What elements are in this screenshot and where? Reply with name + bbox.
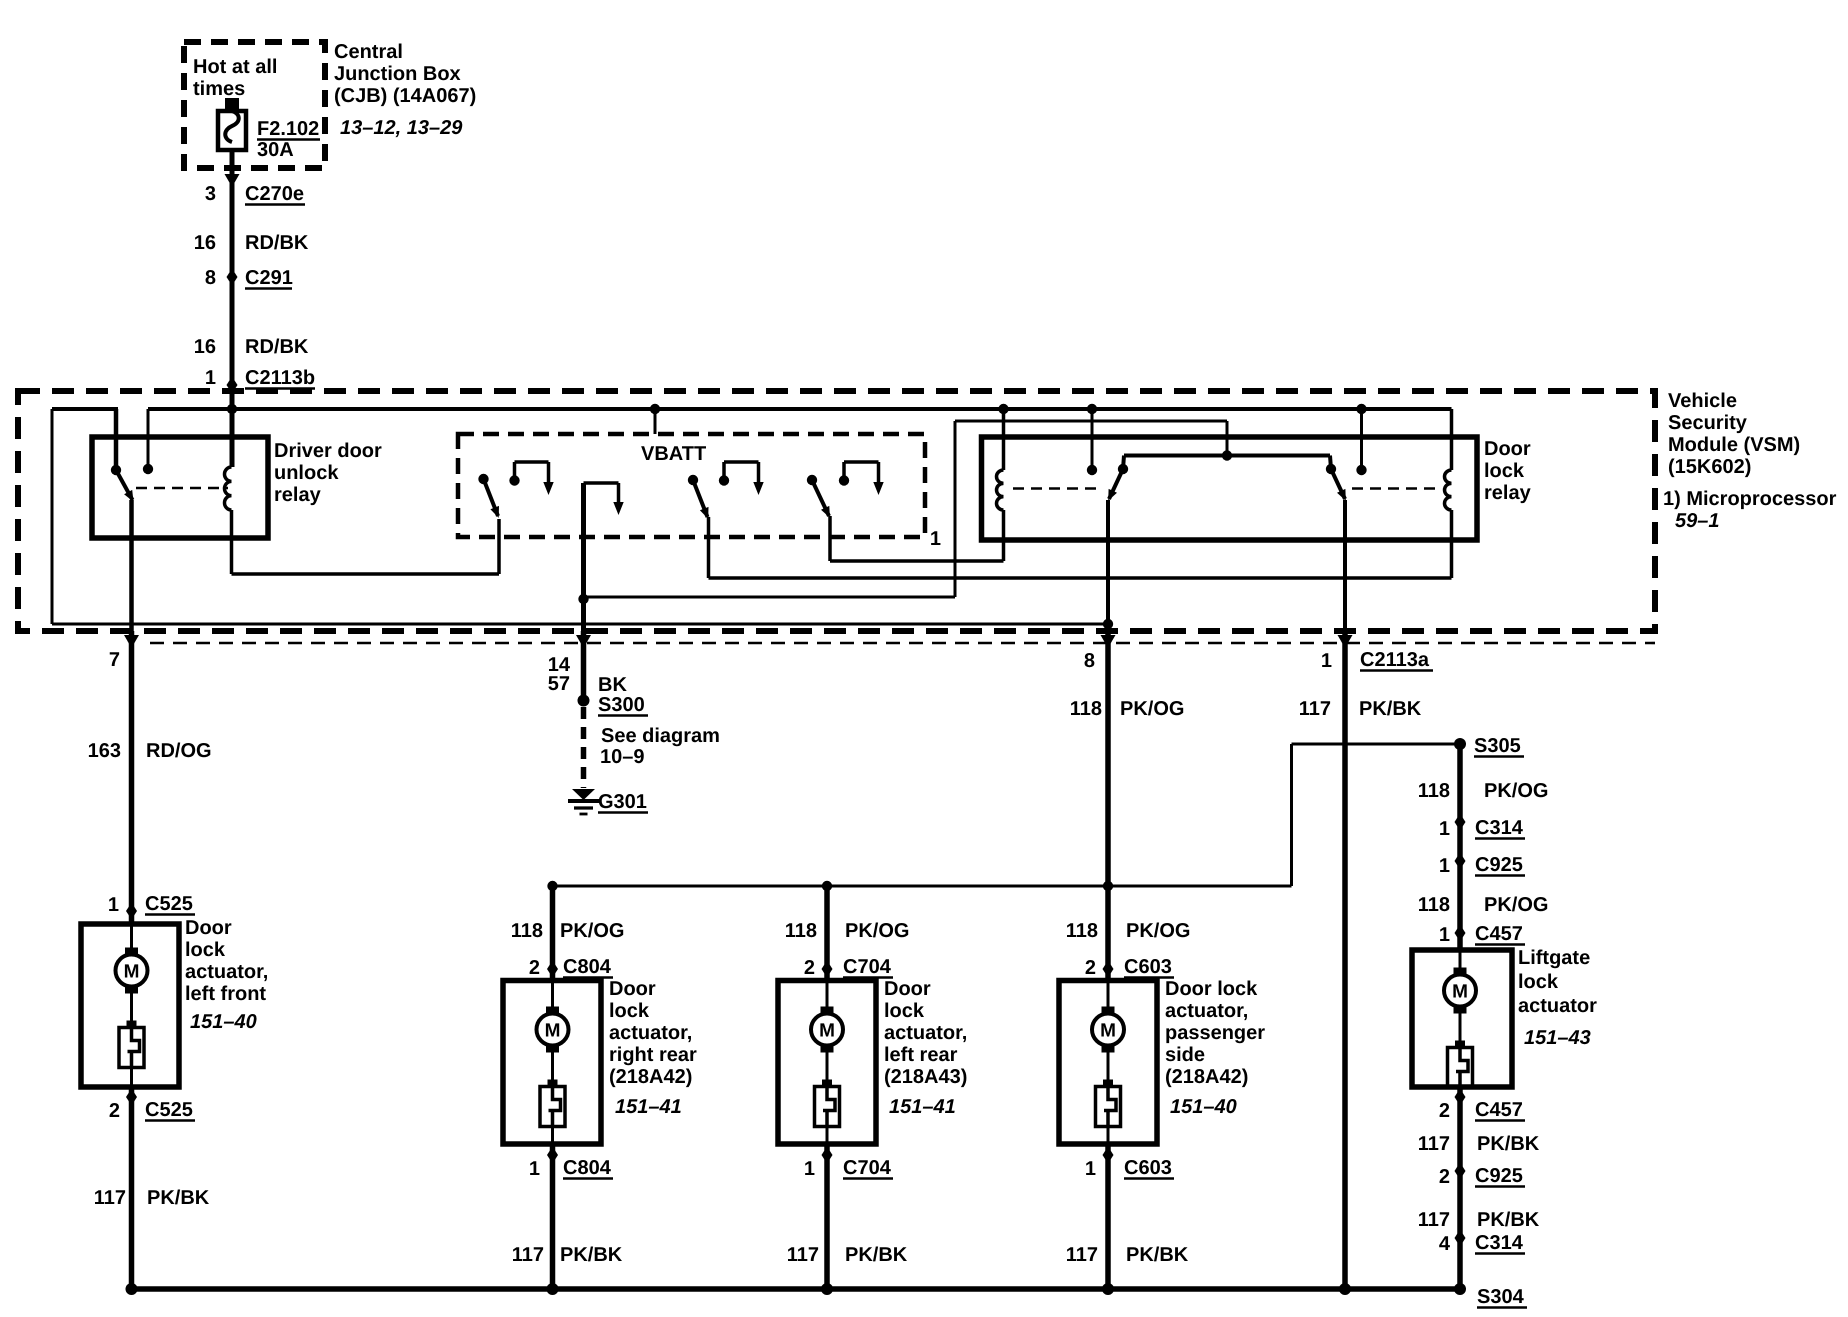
svg-text:Hot at all: Hot at all bbox=[193, 56, 277, 78]
connector C603 pin 1 bbox=[1103, 1147, 1114, 1164]
svg-text:7: 7 bbox=[109, 649, 120, 671]
svg-text:RD/OG: RD/OG bbox=[146, 740, 212, 762]
svg-text:2: 2 bbox=[1439, 1166, 1450, 1188]
svg-text:2: 2 bbox=[1085, 957, 1096, 979]
svg-text:C314: C314 bbox=[1475, 1232, 1524, 1254]
VBATT tap 1 staple with arrow bbox=[513, 462, 517, 481]
svg-text:Door: Door bbox=[1484, 438, 1531, 460]
svg-text:C603: C603 bbox=[1124, 1157, 1172, 1179]
node bus passenger bbox=[1102, 1283, 1114, 1295]
node feed left rear actuator bbox=[822, 881, 832, 891]
svg-text:1: 1 bbox=[1439, 818, 1450, 840]
svg-text:M: M bbox=[124, 962, 140, 983]
svg-text:(218A42): (218A42) bbox=[609, 1066, 692, 1088]
wire 16 RD/BK circuit C291 to C2113b bbox=[230, 277, 235, 391]
svg-text:C603: C603 bbox=[1124, 956, 1172, 978]
svg-text:13–12, 13–29: 13–12, 13–29 bbox=[340, 117, 463, 139]
svg-text:1: 1 bbox=[1439, 855, 1450, 877]
svg-text:Liftgate: Liftgate bbox=[1518, 947, 1590, 969]
svg-text:PK/BK: PK/BK bbox=[147, 1187, 210, 1209]
svg-text:1: 1 bbox=[529, 1158, 540, 1180]
svg-text:VBATT: VBATT bbox=[641, 443, 706, 465]
svg-text:(218A42): (218A42) bbox=[1165, 1066, 1248, 1088]
wire 118 PK/OG to passenger side actuator bbox=[1105, 886, 1111, 981]
svg-text:lock: lock bbox=[185, 939, 226, 961]
door lock relay actuation dashed line right bbox=[1352, 487, 1442, 490]
svg-text:Junction Box: Junction Box bbox=[334, 63, 461, 85]
connector C603 pin 2 bbox=[1103, 961, 1114, 978]
svg-text:side: side bbox=[1165, 1044, 1205, 1066]
svg-text:S300: S300 bbox=[598, 694, 645, 716]
door lock actuator passenger side bbox=[1059, 981, 1157, 1145]
svg-text:16: 16 bbox=[194, 336, 216, 358]
svg-text:117: 117 bbox=[1066, 1244, 1098, 1266]
connector C804 pin 1 bbox=[547, 1147, 558, 1164]
svg-text:4: 4 bbox=[1439, 1233, 1451, 1255]
svg-text:C925: C925 bbox=[1475, 1165, 1523, 1187]
svg-text:C704: C704 bbox=[843, 1157, 892, 1179]
wire dashed to ground G301 bbox=[581, 707, 587, 788]
svg-text:Central: Central bbox=[334, 41, 403, 63]
microprocessor switch 3 pivot bbox=[807, 475, 817, 485]
svg-text:C2113b: C2113b bbox=[245, 367, 315, 389]
svg-text:151–41: 151–41 bbox=[615, 1096, 682, 1118]
VBATT tap 1 dot bbox=[509, 475, 519, 485]
svg-text:lock: lock bbox=[1484, 460, 1525, 482]
svg-text:right rear: right rear bbox=[609, 1044, 697, 1066]
svg-text:Driver door: Driver door bbox=[274, 440, 382, 462]
door lock relay contact dot left bbox=[1087, 465, 1097, 475]
liftgate lock actuator bbox=[1412, 950, 1512, 1087]
Central Junction Box dashed box (Hot at all times) bbox=[184, 42, 325, 168]
svg-text:actuator,: actuator, bbox=[884, 1022, 967, 1044]
door lock actuator left rear bbox=[778, 981, 876, 1145]
wire VBATT feed bus y409 main segment bbox=[148, 407, 1452, 411]
VBATT tap 3 staple with arrow bbox=[722, 462, 726, 481]
svg-text:PK/OG: PK/OG bbox=[1484, 780, 1548, 802]
svg-text:Door lock: Door lock bbox=[1165, 978, 1258, 1000]
Vehicle Security Module (VSM) dashed box bbox=[18, 391, 1655, 631]
wire stub bus to VBATT box bbox=[654, 409, 657, 434]
svg-text:151–40: 151–40 bbox=[190, 1011, 257, 1033]
VBATT tap 3 dot bbox=[719, 475, 729, 485]
wire distribution 118 PK/OG to rear actuators bbox=[553, 885, 1109, 888]
svg-text:C525: C525 bbox=[145, 1099, 193, 1121]
node distribution junction pin8 bbox=[1103, 881, 1113, 891]
svg-text:8: 8 bbox=[205, 267, 216, 289]
node lock relay contact stub 1 junction bbox=[1087, 404, 1097, 414]
unlock relay contact dot bbox=[143, 464, 153, 474]
wire stub to lock relay left contact bbox=[1091, 409, 1094, 470]
svg-text:117: 117 bbox=[787, 1244, 819, 1266]
node junction C2113b feed on bus bbox=[227, 404, 237, 414]
wire fuse output to connector C270e bbox=[230, 168, 235, 186]
wire 117 PK/BK pin 1 to ground bus bbox=[1342, 631, 1348, 1289]
svg-text:C457: C457 bbox=[1475, 923, 1523, 945]
wire 118 PK/OG S305 to C314 bbox=[1457, 744, 1463, 950]
node bus left rear bbox=[821, 1283, 833, 1295]
svg-text:passenger: passenger bbox=[1165, 1022, 1265, 1044]
svg-text:117: 117 bbox=[512, 1244, 544, 1266]
svg-text:C2113a: C2113a bbox=[1360, 649, 1430, 671]
svg-text:16: 16 bbox=[194, 232, 216, 254]
VBATT tap 4 staple with arrow bbox=[842, 462, 846, 481]
svg-text:118: 118 bbox=[1070, 698, 1102, 720]
svg-text:1: 1 bbox=[1439, 924, 1450, 946]
wire 117 PK/BK left rear actuator to ground bus bbox=[824, 1144, 830, 1289]
wire stub to lock relay right contact bbox=[1360, 409, 1363, 470]
svg-text:PK/OG: PK/OG bbox=[1120, 698, 1184, 720]
svg-text:118: 118 bbox=[1418, 780, 1450, 802]
connector C291 pin 8 bbox=[227, 269, 238, 286]
unlock relay switch pivot bbox=[111, 465, 121, 475]
svg-text:10–9: 10–9 bbox=[600, 746, 645, 768]
svg-text:2: 2 bbox=[529, 957, 540, 979]
svg-text:(218A43): (218A43) bbox=[884, 1066, 967, 1088]
door lock relay switch arm left bbox=[1109, 469, 1123, 499]
node bus left front bbox=[126, 1283, 138, 1295]
svg-text:117: 117 bbox=[1418, 1133, 1450, 1155]
svg-text:PK/BK: PK/BK bbox=[1126, 1244, 1189, 1266]
svg-text:actuator,: actuator, bbox=[185, 961, 268, 983]
svg-text:PK/OG: PK/OG bbox=[1126, 920, 1190, 942]
svg-text:M: M bbox=[1100, 1021, 1116, 1042]
unlock relay coil bbox=[225, 467, 232, 510]
svg-text:PK/OG: PK/OG bbox=[845, 920, 909, 942]
svg-text:118: 118 bbox=[1418, 894, 1450, 916]
connector pin 1 C2113a bbox=[1338, 635, 1353, 648]
unlock relay actuation dashed line bbox=[136, 487, 228, 490]
microprocessor switch 2 arm bbox=[693, 480, 708, 517]
wire bus corner down to right coil top bbox=[1450, 409, 1454, 470]
svg-text:Vehicle: Vehicle bbox=[1668, 390, 1737, 412]
svg-text:30A: 30A bbox=[257, 139, 294, 161]
svg-text:2: 2 bbox=[109, 1100, 120, 1122]
connector C2113b pin 1 bbox=[227, 377, 238, 394]
svg-text:M: M bbox=[1452, 982, 1468, 1003]
svg-text:2: 2 bbox=[1439, 1100, 1450, 1122]
door lock relay switch pivot left bbox=[1118, 464, 1128, 474]
svg-text:relay: relay bbox=[1484, 482, 1532, 504]
door lock relay common bar bbox=[1124, 454, 1330, 458]
svg-text:57: 57 bbox=[548, 673, 570, 695]
svg-text:relay: relay bbox=[274, 484, 322, 506]
svg-text:RD/BK: RD/BK bbox=[245, 232, 309, 254]
svg-text:1: 1 bbox=[205, 367, 216, 389]
splice S305 bbox=[1454, 738, 1466, 750]
svg-text:(CJB) (14A067): (CJB) (14A067) bbox=[334, 85, 476, 107]
wire pin 7 unlock output inside VSM bbox=[129, 500, 134, 631]
wire switch3 output to door lock relay left coil bbox=[828, 516, 832, 561]
VBATT dashed box bbox=[458, 434, 925, 537]
door lock relay left coil bbox=[1002, 409, 1006, 470]
wire pin 8 lock output inside VSM bbox=[1106, 500, 1110, 631]
microprocessor switch 1 pivot bbox=[478, 474, 488, 484]
wire unlock relay coil bottom to VBATT switch 1 bbox=[230, 510, 234, 574]
svg-text:RD/BK: RD/BK bbox=[245, 336, 309, 358]
svg-text:PK/BK: PK/BK bbox=[1359, 698, 1422, 720]
connector pin 14 57 bbox=[576, 635, 591, 648]
svg-text:PK/BK: PK/BK bbox=[1477, 1209, 1540, 1231]
svg-text:Security: Security bbox=[1668, 412, 1748, 434]
svg-text:C457: C457 bbox=[1475, 1099, 1523, 1121]
svg-text:times: times bbox=[193, 78, 245, 100]
svg-text:M: M bbox=[545, 1021, 561, 1042]
svg-text:151–43: 151–43 bbox=[1524, 1027, 1591, 1049]
svg-text:left rear: left rear bbox=[884, 1044, 958, 1066]
wire 117 PK/BK actuator left front to ground bus bbox=[129, 1087, 135, 1289]
splice S304 bbox=[1454, 1283, 1466, 1295]
connector C925 pin 2 bbox=[1455, 1163, 1466, 1180]
connector line C2113a below VSM bbox=[150, 642, 1655, 645]
wire switch2 output to door lock relay right coil bbox=[707, 517, 711, 578]
svg-text:C270e: C270e bbox=[245, 183, 304, 205]
node bus right rear bbox=[547, 1283, 559, 1295]
connector C525 pin 1 bbox=[126, 903, 137, 920]
connector pin 7 bbox=[124, 635, 139, 648]
svg-text:unlock: unlock bbox=[274, 462, 339, 484]
svg-text:lock: lock bbox=[884, 1000, 925, 1022]
svg-text:Module (VSM): Module (VSM) bbox=[1668, 434, 1800, 456]
svg-text:1: 1 bbox=[1321, 650, 1332, 672]
splice S300 bbox=[578, 695, 590, 707]
wire unlock relay contact stub bbox=[147, 409, 150, 469]
svg-text:1: 1 bbox=[1085, 1158, 1096, 1180]
svg-text:163: 163 bbox=[88, 740, 121, 762]
door lock relay contact dot right bbox=[1356, 465, 1366, 475]
svg-text:Door: Door bbox=[185, 917, 232, 939]
node VBATT box feed bbox=[650, 404, 660, 414]
node junction pin8 wire and bottom link bbox=[1103, 619, 1113, 629]
svg-text:G301: G301 bbox=[598, 791, 647, 813]
microprocessor switch 2 pivot bbox=[688, 475, 698, 485]
microprocessor switch 3 arm bbox=[812, 480, 829, 516]
wire VBATT feed bus y409 left segment to unlock relay common bbox=[52, 407, 118, 411]
wire VSM left side down bbox=[51, 409, 54, 624]
svg-text:8: 8 bbox=[1084, 650, 1095, 672]
connector C704 pin 1 bbox=[822, 1147, 833, 1164]
svg-text:See diagram: See diagram bbox=[601, 725, 720, 747]
svg-text:lock: lock bbox=[609, 1000, 650, 1022]
wire 118 PK/OG to right rear actuator bbox=[550, 886, 556, 981]
svg-text:2: 2 bbox=[804, 957, 815, 979]
door lock relay actuation dashed line left bbox=[1013, 487, 1100, 490]
svg-text:1: 1 bbox=[804, 1158, 815, 1180]
svg-text:S305: S305 bbox=[1474, 735, 1521, 757]
connector pin 8 bbox=[1101, 635, 1116, 648]
wire 117 PK/BK ground bus bbox=[132, 1286, 1461, 1292]
svg-text:C291: C291 bbox=[245, 267, 293, 289]
svg-text:BK: BK bbox=[598, 674, 627, 696]
connector C925 pin 1 bbox=[1455, 853, 1466, 870]
door lock relay switch pivot right bbox=[1326, 464, 1336, 474]
svg-text:3: 3 bbox=[205, 183, 216, 205]
svg-text:C804: C804 bbox=[563, 956, 612, 978]
connector C314 pin 4 bbox=[1455, 1230, 1466, 1247]
wire 163 RD/OG pin7 to C525 bbox=[129, 631, 135, 924]
node ground tie on common bar bbox=[1222, 450, 1232, 460]
svg-text:actuator,: actuator, bbox=[609, 1022, 692, 1044]
door lock actuator right rear bbox=[503, 981, 601, 1145]
svg-text:C314: C314 bbox=[1475, 817, 1524, 839]
svg-text:1) Microprocessor: 1) Microprocessor bbox=[1663, 488, 1837, 510]
door lock actuator left front bbox=[81, 924, 179, 1087]
svg-text:117: 117 bbox=[1299, 698, 1331, 720]
svg-text:M: M bbox=[819, 1021, 835, 1042]
relay box driver door unlock relay bbox=[92, 437, 268, 538]
connector C314 pin 1 bbox=[1455, 814, 1466, 831]
wire 16 RD/BK circuit fuse to C291 bbox=[230, 186, 235, 277]
ground G301 bbox=[572, 789, 595, 800]
svg-text:Door: Door bbox=[609, 978, 656, 1000]
wire 117 PK/BK passenger actuator to ground bus bbox=[1105, 1144, 1111, 1289]
svg-text:C704: C704 bbox=[843, 956, 892, 978]
connector C457 pin 1 bbox=[1455, 925, 1466, 942]
svg-text:151–40: 151–40 bbox=[1170, 1096, 1237, 1118]
svg-text:PK/OG: PK/OG bbox=[560, 920, 624, 942]
svg-text:F2.102: F2.102 bbox=[257, 118, 319, 140]
svg-text:117: 117 bbox=[1418, 1209, 1450, 1231]
wire BK pin 14 57 below VSM bbox=[581, 631, 587, 700]
wire distribution riser to S305 link bbox=[1108, 885, 1292, 888]
wire ground riser from pin 14/57 bbox=[581, 483, 586, 631]
wire 118 PK/OG to left rear actuator bbox=[824, 886, 830, 981]
svg-text:PK/OG: PK/OG bbox=[1484, 894, 1548, 916]
node bus pin1 bbox=[1339, 1283, 1351, 1295]
svg-text:1: 1 bbox=[930, 528, 941, 550]
svg-text:lock: lock bbox=[1518, 971, 1559, 993]
wire VSM bottom link to pin 8 node bbox=[52, 623, 1108, 626]
microprocessor switch 1 arm bbox=[484, 479, 499, 516]
svg-text:151–41: 151–41 bbox=[889, 1096, 956, 1118]
fuse F2.102 30A bbox=[225, 98, 239, 111]
connector C270e pin 3 bbox=[225, 174, 240, 187]
node lock relay contact stub 2 junction bbox=[1356, 404, 1366, 414]
wire 117 PK/BK liftgate to C925 bbox=[1457, 1087, 1463, 1289]
svg-text:117: 117 bbox=[94, 1187, 126, 1209]
relay box door lock relay bbox=[982, 437, 1478, 540]
svg-text:118: 118 bbox=[785, 920, 817, 942]
svg-text:PK/BK: PK/BK bbox=[845, 1244, 908, 1266]
svg-text:S304: S304 bbox=[1477, 1286, 1525, 1308]
door lock relay switch arm right bbox=[1331, 469, 1345, 499]
svg-text:actuator,: actuator, bbox=[1165, 1000, 1248, 1022]
svg-text:118: 118 bbox=[511, 920, 543, 942]
connector C525 pin 2 bbox=[126, 1089, 137, 1106]
node left coil top junction bbox=[998, 404, 1008, 414]
svg-text:C804: C804 bbox=[563, 1157, 612, 1179]
svg-text:(15K602): (15K602) bbox=[1668, 456, 1751, 478]
wire 117 PK/BK right rear actuator to ground bus bbox=[550, 1144, 556, 1289]
svg-text:118: 118 bbox=[1066, 920, 1098, 942]
VBATT tap 2 staple with arrow bbox=[584, 481, 619, 485]
unlock relay switch arm bbox=[116, 470, 133, 500]
svg-text:PK/BK: PK/BK bbox=[560, 1244, 623, 1266]
svg-text:C525: C525 bbox=[145, 893, 193, 915]
door lock relay right coil bbox=[1445, 470, 1452, 510]
node feed right rear actuator bbox=[547, 881, 557, 891]
connector C704 pin 2 bbox=[822, 961, 833, 978]
wire pin 1 output inside VSM bbox=[1343, 500, 1347, 631]
svg-text:C925: C925 bbox=[1475, 854, 1523, 876]
wire ground link to lock relay commons bbox=[584, 596, 956, 599]
svg-text:Door: Door bbox=[884, 978, 931, 1000]
VBATT tap 4 dot bbox=[839, 475, 849, 485]
svg-text:actuator: actuator bbox=[1518, 995, 1597, 1017]
svg-text:left front: left front bbox=[185, 983, 266, 1005]
wire 118 PK/OG pin 8 down to distribution node bbox=[1105, 631, 1111, 886]
connector C804 pin 2 bbox=[547, 961, 558, 978]
wire power feed C2113b into VSM to unlock relay coil bbox=[230, 391, 235, 467]
svg-text:PK/BK: PK/BK bbox=[1477, 1133, 1540, 1155]
svg-text:1: 1 bbox=[108, 894, 119, 916]
connector C457 pin 2 bbox=[1455, 1089, 1466, 1106]
svg-text:59–1: 59–1 bbox=[1675, 510, 1720, 532]
